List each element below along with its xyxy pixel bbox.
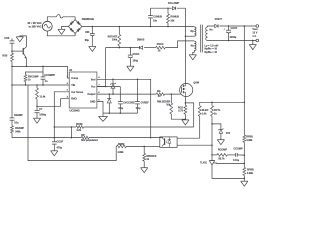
resistor RT 11.4k: [36, 85, 38, 88]
wire QSS emitter to Comp line: [25, 58, 27, 66]
node RSTART bottom: [119, 47, 121, 49]
node TL431 cathode: [211, 154, 213, 156]
node RBLEEDER join: [185, 118, 187, 120]
capacitor CVCC 100µ: [129, 48, 131, 56]
diode DBIAS: [138, 46, 140, 49]
svg-text:Vcc: Vcc: [91, 86, 96, 89]
node QSS base: [11, 50, 13, 52]
ground at bridge: [58, 28, 65, 30]
svg-text:CVCC: CVCC: [133, 53, 140, 56]
node zener top: [112, 79, 114, 81]
svg-text:GND: GND: [90, 100, 96, 103]
svg-text:RLED: RLED: [202, 109, 209, 112]
svg-text:DCLAMP: DCLAMP: [168, 1, 179, 5]
node COUT top: [228, 25, 230, 27]
capacitor CSS: [10, 40, 15, 42]
wire AC source bottom: [47, 31, 75, 36]
wire TL431 ref: [213, 162, 244, 164]
wire Vcc line to pin 7: [97, 48, 106, 87]
resistor RSTART 100k: [118, 27, 120, 35]
transformer T1 secondary winding Ns: [206, 27, 208, 41]
diode DCLAMP: [172, 7, 175, 10]
resistor RCS 0.75: [184, 103, 186, 105]
node COUT bottom: [228, 40, 230, 42]
node L1 riser: [71, 126, 73, 128]
node CCOMPP bottom: [42, 84, 44, 86]
wire Vcc row pin 7: [97, 86, 120, 88]
resistor RFB2 4.99k: [117, 145, 127, 148]
svg-text:0.1µ: 0.1µ: [136, 107, 141, 110]
resistor RFBB 4.99k: [243, 167, 246, 175]
node TL431 ref: [244, 163, 246, 165]
ground at QSS: [16, 36, 23, 38]
wire row L2: [12, 137, 81, 139]
ground at CCSF: [51, 150, 58, 152]
svg-text:Cur Sense: Cur Sense: [71, 91, 84, 94]
ground at output: [252, 41, 254, 45]
node RVCOMP bottom: [25, 84, 27, 86]
node FB vertical joins L2: [150, 137, 152, 139]
svg-text:1 A: 1 A: [252, 35, 256, 38]
svg-text:CIN: CIN: [85, 31, 89, 34]
wire TL431 anode: [212, 165, 244, 179]
svg-text:10k: 10k: [166, 104, 171, 107]
ground at VZ1: [217, 139, 224, 141]
capacitor CCOMP 0.01µ: [234, 153, 236, 157]
svg-text:Vfb: Vfb: [71, 84, 75, 87]
capacitor CVCCDEC 0.1µ: [119, 87, 121, 102]
svg-text:Vref: Vref: [91, 78, 96, 81]
wire to VZ1: [212, 124, 221, 129]
svg-text:RG: RG: [157, 90, 161, 93]
svg-text:68µ: 68µ: [85, 39, 90, 42]
wire current sense row L1: [54, 126, 76, 128]
svg-text:0.75: 0.75: [178, 110, 183, 113]
node output ground: [252, 40, 254, 42]
svg-text:4.99k: 4.99k: [246, 139, 253, 142]
wire L2 into opto collector: [162, 136, 164, 139]
ground at aux winding: [189, 54, 196, 56]
capacitor CIN: [91, 27, 93, 34]
capacitor CCSF 470p: [53, 138, 55, 142]
wire RCOMP row: [212, 154, 217, 156]
node diode D top: [109, 93, 111, 95]
resistor RSS: [11, 53, 14, 61]
svg-text:RP: RP: [81, 134, 85, 137]
wire clamp top line: [151, 7, 173, 9]
svg-text:RCTL: RCTL: [214, 109, 221, 112]
svg-text:UC3842: UC3842: [69, 109, 80, 113]
node CVREF column: [137, 79, 139, 81]
diode DOUT: [215, 24, 218, 27]
node control feed: [244, 102, 246, 104]
node CCSF top: [54, 137, 56, 139]
svg-text:100k: 100k: [112, 39, 118, 42]
node RT CT junction: [36, 106, 38, 108]
wire Vref jog to opto collector: [138, 79, 151, 137]
ground at RCS: [182, 119, 189, 121]
svg-text:Np/Na = 10: Np/Na = 10: [205, 51, 218, 54]
node diode D bottom: [109, 112, 111, 114]
wire Vcc supply line: [106, 47, 139, 49]
svg-text:RSS: RSS: [2, 55, 7, 58]
svg-text:DBRIDGE: DBRIDGE: [82, 17, 95, 21]
capacitor CVREF 0.1µ: [137, 79, 139, 101]
resistor RCSF 4.2k: [76, 126, 84, 129]
svg-text:1.0k: 1.0k: [202, 113, 207, 116]
node CVCCDEC bottom: [120, 112, 122, 114]
wire secondary bottom return rail: [208, 40, 256, 42]
svg-text:CCOMP: CCOMP: [234, 148, 243, 151]
ground at divider: [241, 180, 248, 182]
wire pin 3 current sense: [54, 92, 69, 138]
resistor RVCOMP 10k: [24, 75, 27, 82]
svg-text:RVCC: RVCC: [157, 43, 164, 46]
svg-text:470p: 470p: [57, 146, 63, 149]
wire RBLEEDER to source ground: [171, 114, 185, 119]
terminal VOUT plus: [256, 25, 259, 28]
wire RCTL to opto cathode node: [211, 124, 213, 145]
resistor RP not populated: [81, 136, 89, 139]
svg-text:Np: Np: [191, 30, 195, 33]
wire pin 4 Rt/Ct: [37, 99, 69, 107]
wire fuse to bridge top: [63, 17, 75, 20]
resistor RCOMP 88.7k: [217, 153, 227, 156]
node L1 left: [54, 126, 56, 128]
svg-text:4.99k: 4.99k: [247, 172, 254, 175]
svg-text:CSNUB: CSNUB: [153, 15, 162, 18]
svg-text:COUT: COUT: [231, 27, 238, 30]
wire opto cathode: [177, 144, 212, 146]
svg-text:CVREF: CVREF: [141, 101, 150, 104]
svg-text:240k: 240k: [15, 130, 21, 133]
wire source: [184, 96, 186, 103]
svg-text:U1: U1: [69, 68, 73, 72]
wire AC source top: [47, 17, 56, 22]
wire gate: [165, 93, 181, 95]
svg-text:RCOMP: RCOMP: [218, 149, 227, 152]
wire RRAMP to row L2: [11, 133, 13, 138]
zener DZ: [112, 79, 114, 84]
node gate: [171, 93, 173, 95]
transistor QSS: [12, 50, 23, 52]
node RSTART top: [119, 26, 121, 28]
resistor RCTL 1k: [211, 102, 213, 106]
zener VZ1: [218, 129, 223, 131]
node RT top: [36, 84, 38, 86]
node TL431 anode rail: [244, 178, 246, 180]
resistor RG 10: [156, 93, 164, 96]
node source: [185, 102, 187, 104]
svg-text:VZ1: VZ1: [226, 132, 231, 135]
svg-text:Rt/Ct: Rt/Ct: [71, 98, 77, 101]
svg-text:CT: CT: [39, 108, 43, 111]
svg-text:Not populated: Not populated: [81, 139, 98, 142]
svg-text:10k: 10k: [170, 19, 175, 22]
svg-text:RCSF: RCSF: [76, 123, 83, 126]
node Vfb line left: [11, 84, 13, 86]
svg-text:CCOMPP: CCOMPP: [44, 74, 55, 77]
AC source VIN: [42, 21, 52, 31]
wire RC pair top bus: [26, 66, 44, 74]
svg-text:0.1µ: 0.1µ: [118, 107, 123, 110]
wire ground rail: [103, 112, 138, 114]
capacitor CSNUB 10n: [150, 8, 152, 15]
wire opto emitter row: [144, 145, 160, 147]
resistor RRAMP 240k: [11, 126, 14, 133]
svg-text:to 265 VAC: to 265 VAC: [29, 26, 42, 29]
node primary bottom: [185, 35, 187, 37]
ground at CIN: [89, 45, 96, 47]
capacitor CCOMPP 1n: [42, 72, 44, 77]
svg-text:RFB2: RFB2: [118, 143, 125, 146]
wire L1 to L2 riser: [70, 127, 72, 138]
wire Output row pin 6: [97, 93, 156, 95]
wire DC bus: [82, 26, 194, 28]
node Vcc descent: [105, 86, 107, 88]
svg-text:4.2k: 4.2k: [76, 129, 81, 132]
transformer T1 aux winding Na: [194, 41, 196, 50]
resistor RBOFFS 1k: [143, 146, 145, 153]
wire RFB2 to Vfb return: [28, 85, 117, 161]
svg-text:Output: Output: [87, 93, 95, 96]
wire output plus rail: [219, 25, 256, 27]
wire left column top stub: [11, 38, 13, 41]
wire RLED to opto anode: [177, 137, 200, 139]
svg-text:0.01µ: 0.01µ: [233, 159, 240, 162]
wire current sense tap: [185, 103, 193, 127]
node feedback tap: [244, 25, 246, 27]
resistor RVCC 10: [156, 46, 166, 49]
svg-text:Comp: Comp: [71, 77, 78, 80]
resistor RSNUB 10k: [167, 7, 169, 9]
diode D: [108, 94, 110, 98]
wire DBIAS to RVCC: [144, 47, 156, 49]
node zener bottom on output row: [112, 93, 114, 95]
wire clamp to drain: [177, 8, 185, 36]
node opto cathode: [211, 144, 213, 146]
terminal VOUT return: [256, 39, 259, 42]
wire primary bottom pin: [185, 35, 194, 37]
wire aux bottom to ground: [193, 51, 195, 55]
resistor RLED 1.0k: [198, 106, 201, 116]
wire bridge left vertex to ground: [62, 27, 69, 30]
ground at CVCC: [127, 65, 134, 67]
svg-text:DBIAS: DBIAS: [137, 39, 145, 42]
node RBOFFS top: [143, 146, 145, 148]
svg-text:11.4k: 11.4k: [40, 96, 47, 99]
node CIN top: [92, 26, 94, 28]
shunt regulator TL431: [211, 155, 213, 161]
svg-text:88.7k: 88.7k: [218, 158, 225, 161]
node CCOMP right: [244, 154, 246, 156]
transformer core: [200, 25, 202, 53]
resistor RFBU 4.99k: [243, 135, 246, 142]
transformer T1 primary winding Np: [194, 27, 196, 36]
wire QSS collector to ground: [20, 36, 27, 47]
wire pin 5 GND: [97, 101, 103, 113]
svg-text:CCSF: CCSF: [57, 140, 64, 143]
MOSFET QSW: [180, 83, 193, 96]
node CVCC top: [130, 47, 132, 49]
node VZ1 branch: [211, 123, 213, 125]
ground at CT: [33, 117, 40, 119]
IC U1 UC3842: [69, 72, 97, 108]
node comp rc riser: [42, 66, 44, 68]
wire Comp line: [12, 66, 69, 78]
fuse F1: [57, 15, 64, 18]
svg-text:DOUT: DOUT: [215, 18, 223, 21]
resistor RBLEEDER 10k: [170, 94, 172, 103]
svg-text:10n: 10n: [14, 121, 19, 124]
svg-text:2200µ: 2200µ: [230, 36, 237, 39]
svg-text:CSS: CSS: [4, 37, 9, 40]
svg-text:QSW: QSW: [193, 81, 199, 84]
capacitor COUT 2200µ: [228, 26, 230, 30]
wire secondary top to DOUT: [208, 25, 215, 28]
svg-text:CVCCDEC: CVCCDEC: [123, 101, 135, 104]
wire Vref row pin 8: [97, 78, 138, 80]
wire control feed row: [200, 102, 245, 106]
bridge rectifier DBRIDGE: [68, 20, 82, 34]
node Comp line left: [11, 66, 13, 68]
svg-text:100µ: 100µ: [133, 59, 139, 62]
capacitor CT 1000p: [36, 106, 38, 110]
svg-text:CRAMP: CRAMP: [14, 114, 23, 117]
wire Vfb line: [12, 84, 69, 86]
ground at IC: [102, 113, 104, 116]
optocoupler U2: [160, 137, 177, 148]
svg-text:RSNUB: RSNUB: [170, 16, 179, 19]
svg-text:TL431: TL431: [200, 162, 208, 165]
node RCTL top: [211, 102, 213, 104]
ground at RBOFFS: [141, 167, 148, 169]
wire feedback from Vout: [243, 26, 245, 135]
svg-text:1000p: 1000p: [39, 114, 46, 117]
svg-text:4.99k: 4.99k: [117, 151, 124, 154]
svg-text:10n: 10n: [153, 20, 158, 23]
capacitor CRAMP 10n: [10, 117, 15, 119]
wire RVCC to aux winding: [165, 41, 194, 48]
